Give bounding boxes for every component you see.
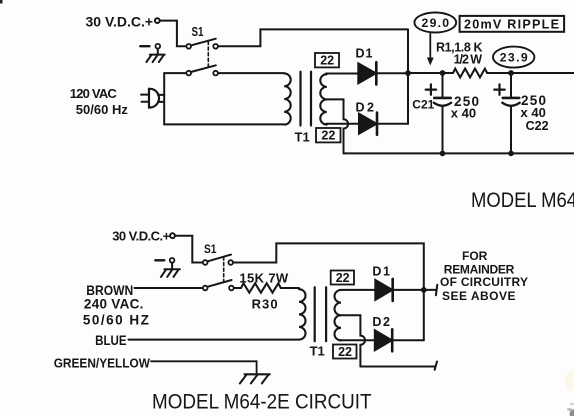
svg-text:50/60 HZ: 50/60 HZ [83,312,149,327]
diode D2 (bottom) [375,329,392,351]
svg-text:S1: S1 [204,242,217,256]
junction dot rectifier output [405,70,411,76]
svg-text:BLUE: BLUE [95,333,127,348]
switch S1 gang dashed link [207,42,209,67]
capacitor C22 [494,70,519,156]
transformer T1 secondary [320,74,327,124]
transformer T1 secondary (bottom) [335,290,342,340]
svg-text:29.0: 29.0 [422,16,450,30]
balloon 23.9 [493,47,534,68]
capacitor C21 [426,70,452,156]
svg-text:D2: D2 [372,315,390,329]
wire terminal to S1 upper pole [160,21,186,47]
wire terminal to S1 (bottom) [175,236,202,263]
resistor R30 [241,283,281,292]
wire junction to continuation tick [424,289,436,291]
scan corner mark [0,0,3,4]
diode D2 [359,113,377,135]
ground (top, DC minus) [140,44,164,62]
continuation tick (center tap) [435,362,437,370]
svg-text:SEE ABOVE: SEE ABOVE [442,289,516,303]
switch S1 lower pole contacts (bottom) [203,286,208,291]
plug prongs [141,95,148,102]
transformer T1 core (bottom) [315,287,326,341]
switch S1 gang dashed link (bottom) [223,257,225,283]
svg-text:GREEN/YELLOW: GREEN/YELLOW [54,355,151,370]
terminal 30VDC [155,18,160,23]
svg-text:22: 22 [320,54,334,68]
terminal 30VDC (bottom) [170,233,175,238]
wire secondary bottom to D2 (bottom) [340,339,375,341]
wire rectifier bus vertical [407,29,409,123]
svg-text:D1: D1 [372,264,390,278]
svg-text:MODEL M64: MODEL M64 [471,189,574,212]
wire plug bottom to primary [164,123,284,125]
wire center tap to continuation tick [360,366,435,368]
svg-text:120 VAC: 120 VAC [70,86,118,101]
svg-text:20mV RIPPLE: 20mV RIPPLE [464,18,559,32]
AC plug P1 [149,89,159,108]
switch S1 upper pole blade [191,39,216,46]
wire R30 to primary [281,287,299,289]
wire secondary top to D1 [326,73,358,75]
note FOR REMAINDER OF CIRCUITRY SEE ABOVE [440,249,528,303]
svg-text:x 40: x 40 [451,106,476,121]
transformer T1 primary (bottom) [299,289,306,339]
svg-text:15K 7W: 15K 7W [239,270,289,285]
diode D1 [358,62,376,84]
svg-text:22: 22 [336,271,350,285]
wire secondary top to D1 (bottom) [340,289,375,291]
ground (bottom, DC minus) [155,258,180,277]
wire BLUE to primary bottom [129,339,300,341]
wire S1 upper to top bus [218,29,408,46]
wire D2 cathode to bus [378,123,408,125]
switch S1 upper pole blade (bottom) [208,255,231,262]
svg-text:T1: T1 [310,343,325,358]
box 22 top secondary lead (bottom) [331,271,354,285]
svg-text:22: 22 [338,345,352,359]
wire output bus right segment [487,72,574,74]
diode D1 (bottom) [375,279,392,301]
box 20mV RIPPLE [460,16,564,32]
switch S1 lower pole contacts [186,71,191,76]
wire D1 cathode to junction (bottom) [394,289,424,291]
svg-text:50/60 Hz: 50/60 Hz [76,102,129,117]
wire output bus left segment [408,72,453,74]
junction dot (bottom) [421,287,427,293]
svg-text:MODEL M64-2E CIRCUIT: MODEL M64-2E CIRCUIT [152,390,372,413]
box 22 bottom secondary lead [316,128,341,143]
box 22 top secondary lead [315,53,339,68]
svg-text:C22: C22 [526,119,549,133]
svg-text:C21: C21 [412,98,434,112]
switch S1 upper pole contacts (bottom) [203,260,208,265]
svg-text:240 VAC.: 240 VAC. [84,297,143,312]
svg-text:S1: S1 [192,25,204,39]
scan stain bottom right (yellow) [565,371,574,391]
svg-text:22: 22 [321,129,335,143]
wire D1 cathode to junction [378,72,408,74]
scan smudge bottom right corner [570,409,574,416]
switch S1 lower pole blade (bottom) [208,280,232,287]
svg-text:1/2 W: 1/2 W [454,52,483,66]
svg-text:T1: T1 [295,130,310,145]
wire S1 to R30 [234,287,241,289]
wire S1 to bus and down to rectifier junction (bottom) [233,243,423,340]
wire plug row to S1 lower pole [164,72,186,74]
svg-text:30 V.D.C.+: 30 V.D.C.+ [112,229,170,244]
svg-text:OF CIRCUITRY: OF CIRCUITRY [440,275,528,289]
wire bottom rail [344,152,574,154]
svg-text:23.9: 23.9 [500,51,528,65]
svg-text:30 V.D.C.+: 30 V.D.C.+ [86,14,154,30]
balloon 29.0 [414,13,456,33]
resistor R1 [453,69,487,78]
svg-text:D1: D1 [356,47,373,61]
transformer T1 core [301,72,312,126]
wire BROWN to S1 [135,287,203,289]
continuation tick (output) [436,285,437,296]
wire D2 cathode to bus (bottom) [394,339,424,341]
arrow from balloon to bus [427,34,434,66]
wire secondary bottom to D2 [326,123,359,125]
plug stubs to wire [158,95,164,102]
transformer T1 primary [284,73,291,124]
svg-text:FOR: FOR [462,249,488,263]
svg-text:R30: R30 [252,297,278,312]
earth ground (bottom) [240,374,270,383]
wire plug vertical [163,73,165,124]
switch S1 upper pole contacts [186,44,191,49]
switch S1 lower pole blade [191,65,216,72]
secondary center tap wire with hop (bottom) [341,315,365,366]
wire GREEN/YELLOW to earth [151,361,257,373]
secondary center tap wire with hop [327,99,348,153]
wire S1 lower pole to primary [218,72,284,74]
box 22 bottom secondary lead (bottom) [333,345,357,359]
